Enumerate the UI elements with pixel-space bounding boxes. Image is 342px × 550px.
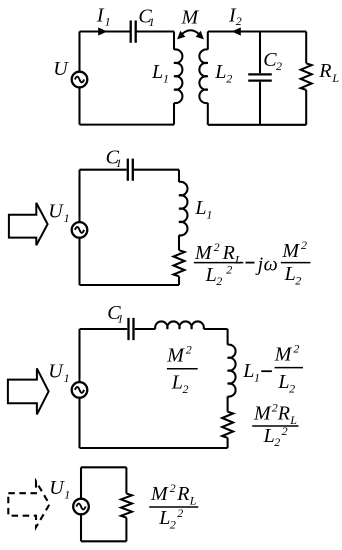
label L1 xyxy=(151,61,169,85)
svg-text:1: 1 xyxy=(149,15,155,29)
wire: loop c4 left lower xyxy=(80,514,82,541)
svg-text:R: R xyxy=(176,483,189,505)
label C1 (circuit 3) xyxy=(107,302,123,325)
label U1 (circuit 3) xyxy=(48,361,69,385)
svg-text:2: 2 xyxy=(216,274,222,288)
label M2RL/L2^2 (circuit 3) xyxy=(252,400,298,449)
svg-text:2: 2 xyxy=(183,382,189,396)
svg-text:2: 2 xyxy=(282,424,288,438)
svg-text:M: M xyxy=(150,483,169,505)
svg-text:L: L xyxy=(331,71,339,85)
resistor (reflected impedance, circuit 2) xyxy=(174,250,185,276)
source U1 (circuit 4) xyxy=(73,499,89,515)
capacitor C1 (circuit 2) xyxy=(128,159,133,181)
svg-text:R: R xyxy=(277,403,290,425)
source U1 (circuit 2) xyxy=(72,222,88,238)
svg-text:1: 1 xyxy=(105,14,111,28)
wire: loop1 right lower xyxy=(173,103,175,125)
inductor M2/L2 (horizontal coil, circuit 3) xyxy=(155,321,204,329)
source U (AC) xyxy=(72,72,88,88)
wire: loop c4 left upper xyxy=(80,467,82,498)
wire: loop2 bottom xyxy=(208,124,306,126)
resistor M2RL/L2^2 (circuit 3) xyxy=(222,412,233,438)
resistor RL xyxy=(301,63,312,90)
svg-text:2: 2 xyxy=(236,14,242,28)
label U1 (circuit 2) xyxy=(48,201,69,225)
wire: loop1 top left segment xyxy=(80,30,130,32)
label I1 xyxy=(96,5,111,29)
wire: loop2 right upper xyxy=(305,32,307,64)
wire: loop c2 right upper xyxy=(178,170,180,182)
svg-text:2: 2 xyxy=(226,263,232,277)
wire: loop c2 right lower xyxy=(178,276,180,285)
svg-text:L: L xyxy=(205,264,217,286)
wire: loop c2 left upper xyxy=(78,170,80,222)
wire: loop c4 right upper xyxy=(125,467,127,493)
svg-text:1: 1 xyxy=(254,370,260,384)
svg-text:L: L xyxy=(234,252,242,266)
wire: loop c2 right middle xyxy=(178,235,180,250)
wire: C2 branch lower xyxy=(259,82,261,125)
svg-text:L: L xyxy=(242,360,254,382)
svg-text:M: M xyxy=(281,240,300,262)
svg-text:2: 2 xyxy=(295,273,301,287)
arrow I1 (current arrow on top wire) xyxy=(98,27,107,35)
label M2/L2 (circuit 3 coil value) xyxy=(166,342,198,395)
wire: loop c4 right lower xyxy=(125,518,127,542)
arrow I2 (current arrow on loop2 top wire, pointing left) xyxy=(232,27,241,35)
inductor L1 - M2/L2 (vertical coil, circuit 3) xyxy=(228,345,236,397)
label U xyxy=(53,58,69,80)
inductor L2 (coil on loop2 left side) xyxy=(199,49,207,103)
capacitor C1 xyxy=(131,21,136,43)
svg-text:j: j xyxy=(255,253,264,275)
svg-text:1: 1 xyxy=(163,72,169,86)
svg-text:1: 1 xyxy=(116,156,122,170)
svg-text:2: 2 xyxy=(301,238,307,252)
svg-text:L: L xyxy=(263,425,275,447)
svg-text:R: R xyxy=(318,60,331,82)
svg-text:2: 2 xyxy=(214,240,220,254)
label U1 (circuit 4) xyxy=(49,477,70,501)
wire: loop1 top right segment xyxy=(136,30,174,32)
block arrow 2 xyxy=(9,203,48,245)
svg-text:ω: ω xyxy=(264,253,278,275)
svg-text:1: 1 xyxy=(117,311,123,325)
wire: loop2 top xyxy=(208,30,306,32)
mutual coupling arrow M (double-headed arc) xyxy=(177,30,204,39)
wire: loop c3 right middle xyxy=(227,396,229,411)
label C1 (circuit 2) xyxy=(106,147,122,170)
svg-text:R: R xyxy=(222,242,235,264)
wire: loop c2 top right xyxy=(134,169,180,171)
label C2 xyxy=(263,49,282,73)
block arrow 3 xyxy=(8,368,49,414)
capacitor C2 xyxy=(248,74,272,80)
wire: loop1 left upper xyxy=(78,32,80,72)
wire: loop2 right lower xyxy=(305,90,307,125)
svg-text:2: 2 xyxy=(226,72,232,86)
svg-text:U: U xyxy=(48,361,64,383)
svg-text:2: 2 xyxy=(170,481,176,495)
inductor L1 (coil on loop1 right side) xyxy=(174,49,182,103)
svg-text:L: L xyxy=(158,507,170,529)
svg-text:L: L xyxy=(151,61,163,83)
label RL xyxy=(318,60,339,85)
svg-text:M: M xyxy=(181,6,200,28)
wire: loop c3 top left xyxy=(80,328,128,330)
svg-text:2: 2 xyxy=(177,506,183,520)
svg-text:2: 2 xyxy=(274,435,280,449)
svg-text:2: 2 xyxy=(289,381,295,395)
svg-text:L: L xyxy=(189,494,197,508)
svg-text:1: 1 xyxy=(206,207,212,221)
source U1 (circuit 3) xyxy=(72,382,88,398)
inductor L1 (circuit 2) xyxy=(179,182,187,236)
svg-text:L: L xyxy=(277,371,289,393)
svg-text:L: L xyxy=(171,372,183,394)
capacitor C1 (circuit 3) xyxy=(129,318,134,340)
label I2 xyxy=(228,4,242,28)
wire: loop1 left lower xyxy=(78,87,80,124)
svg-text:M: M xyxy=(194,242,213,264)
wire: loop c3 top middle xyxy=(135,328,156,330)
wire: loop c3 right upper xyxy=(227,329,229,345)
wire: loop c3 bottom xyxy=(80,447,228,449)
svg-text:M: M xyxy=(166,345,185,367)
svg-text:1: 1 xyxy=(64,487,70,501)
svg-text:M: M xyxy=(253,403,272,425)
wire: C2 branch upper xyxy=(259,32,261,74)
label C1 xyxy=(138,6,154,29)
svg-text:2: 2 xyxy=(170,517,176,531)
dashed block arrow 4 xyxy=(8,481,49,527)
wire: loop2 left upper xyxy=(207,32,209,50)
wire: loop1 right upper xyxy=(173,32,175,50)
svg-text:L: L xyxy=(284,263,296,285)
resistor M2RL/L2^2 (circuit 4) xyxy=(121,494,132,518)
label M2RL/L2^2 (circuit 4) xyxy=(149,481,198,531)
svg-text:L: L xyxy=(194,197,206,219)
svg-text:U: U xyxy=(48,201,64,223)
wire: loop c4 bottom xyxy=(81,540,126,542)
label L1 (circuit 2) xyxy=(194,197,212,221)
svg-text:1: 1 xyxy=(64,211,70,225)
wire: loop c3 right lower xyxy=(227,438,229,448)
label L2 xyxy=(214,61,232,85)
svg-text:L: L xyxy=(214,61,226,83)
label M2RL/L2^2 - jw M2/L2 (impedance formula circuit 2) xyxy=(194,238,311,288)
wire: loop1 bottom xyxy=(80,124,175,126)
wire: loop c3 left upper xyxy=(78,329,80,382)
svg-text:2: 2 xyxy=(293,341,299,355)
svg-text:2: 2 xyxy=(186,342,192,356)
wire: loop2 left lower xyxy=(207,103,209,125)
svg-text:L: L xyxy=(289,413,297,427)
wire: loop c2 bottom xyxy=(80,284,180,286)
svg-text:M: M xyxy=(274,344,293,366)
svg-text:1: 1 xyxy=(64,371,70,385)
wire: loop c3 top right xyxy=(204,328,228,330)
svg-text:U: U xyxy=(53,58,69,80)
wire: loop c3 left lower xyxy=(78,398,80,448)
label M (mutual inductance) xyxy=(181,6,200,28)
wire: loop c2 left lower xyxy=(78,238,80,285)
svg-text:I: I xyxy=(96,5,105,27)
wire: loop c2 top left xyxy=(80,169,127,171)
svg-text:U: U xyxy=(49,477,65,499)
svg-text:2: 2 xyxy=(276,59,282,73)
wire: loop c4 top xyxy=(81,466,126,468)
label L1 - M2/L2 (circuit 3) xyxy=(242,341,303,395)
